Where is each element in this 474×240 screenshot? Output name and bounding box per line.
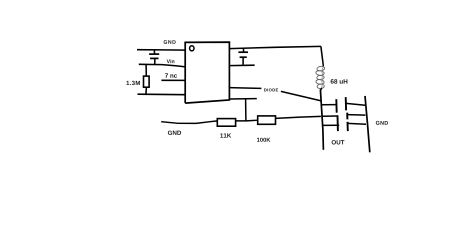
wire switch node top	[229, 46, 321, 48]
capacitor C1 input	[149, 50, 159, 65]
capacitor plate left bottom	[337, 115, 339, 131]
wire junction vertical	[245, 99, 247, 121]
capacitor plate right middle	[346, 113, 348, 120]
capacitor plate left top	[335, 99, 337, 113]
inductor L1 68uH coil	[316, 66, 325, 89]
label GND right	[376, 121, 388, 125]
label GND top	[164, 40, 176, 44]
wire cap stub right row2	[348, 114, 366, 117]
pin-1 marker circle	[190, 46, 194, 51]
capacitor C2	[238, 48, 248, 65]
label 68 uH	[331, 79, 348, 84]
wire resistor top lead	[145, 65, 147, 77]
wire OUT rail	[320, 90, 323, 150]
wire pin 2 right	[229, 64, 254, 66]
wire pin 7 nc	[161, 79, 185, 81]
wire GND rail right	[365, 96, 370, 152]
label 1.3M	[126, 81, 139, 85]
label 100K	[257, 138, 270, 142]
wire IC bottom extension	[229, 98, 256, 100]
wire GND input	[137, 49, 186, 51]
label 7 nc	[165, 73, 177, 77]
wire inductor bottom stub	[321, 88, 322, 91]
wire 11K to 100K	[236, 119, 258, 122]
label GND bottom-left	[168, 131, 181, 135]
wire diode slant to OUT rail	[281, 91, 321, 101]
wire cap stub right row1	[346, 103, 365, 105]
label OUT	[332, 140, 345, 144]
wire elbow down to inductor	[321, 46, 324, 66]
resistor R2 11K	[217, 119, 235, 127]
wire cap stub left row3	[323, 124, 340, 126]
capacitor plate right top	[345, 97, 347, 110]
label Vin	[167, 59, 175, 63]
resistor R3 100K	[258, 116, 276, 124]
wire pin 3 DIODE	[229, 87, 261, 90]
wire resistor bottom lead	[145, 87, 148, 94]
label DIODE	[264, 88, 278, 91]
wire cap stub left row1	[321, 104, 336, 106]
wire bottom-left to IC	[138, 93, 186, 96]
op-amp U1 IC body	[185, 42, 229, 103]
capacitor plate right lower	[347, 122, 349, 131]
wire GND bottom-left	[161, 121, 217, 124]
label 11K	[220, 133, 231, 137]
wire cap stub right row3	[348, 122, 366, 125]
wire cap stub left row2	[322, 115, 338, 117]
wire Vin	[139, 64, 186, 67]
resistor R1 1.3M	[144, 76, 150, 87]
wire 100K to OUT rail	[276, 116, 321, 118]
